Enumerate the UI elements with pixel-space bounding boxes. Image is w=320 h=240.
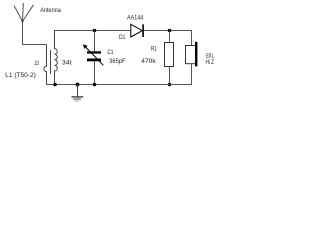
wire C1 top lead <box>94 31 96 52</box>
svg-text:L1 (T50-2): L1 (T50-2) <box>5 73 36 79</box>
svg-text:AA144: AA144 <box>127 16 144 22</box>
antenna apex junction <box>21 20 23 22</box>
wire antenna to L1 primary <box>22 44 47 46</box>
inductor L1 secondary 34t <box>55 31 58 85</box>
node R1 bottom junction <box>168 83 172 87</box>
diode D1 <box>131 24 143 37</box>
svg-text:D1: D1 <box>119 35 126 41</box>
node C1 top junction <box>93 29 97 33</box>
resistor R1 <box>165 43 174 67</box>
ground <box>72 85 84 102</box>
node R1 top junction <box>168 29 172 33</box>
wire R1 bottom lead <box>169 67 171 85</box>
wire EP1 top lead <box>191 31 193 46</box>
svg-text:365pF: 365pF <box>109 59 126 65</box>
svg-text:34t: 34t <box>62 60 72 66</box>
wire bottom rail <box>46 84 192 86</box>
svg-text:Antenna: Antenna <box>40 8 61 14</box>
capacitor C1 (variable) <box>83 44 104 65</box>
svg-text:1t: 1t <box>34 61 39 67</box>
svg-text:C1: C1 <box>107 50 114 56</box>
inductor L1 primary 1t <box>44 45 47 85</box>
earpiece EP1 <box>186 42 198 67</box>
wire C1 bottom lead <box>94 61 96 84</box>
wire top rail right <box>143 30 192 32</box>
wire R1 top lead <box>169 31 171 44</box>
wire EP1 bottom lead <box>191 64 193 85</box>
L1 core <box>50 50 52 74</box>
node ground junction <box>76 83 80 87</box>
node 34t bottom <box>53 83 57 87</box>
svg-text:470k: 470k <box>141 59 157 65</box>
antenna <box>14 3 34 45</box>
svg-text:R1: R1 <box>151 47 157 53</box>
wire top rail left <box>54 30 131 32</box>
svg-text:Hi Z: Hi Z <box>206 60 215 66</box>
node C1 bottom <box>93 83 97 87</box>
